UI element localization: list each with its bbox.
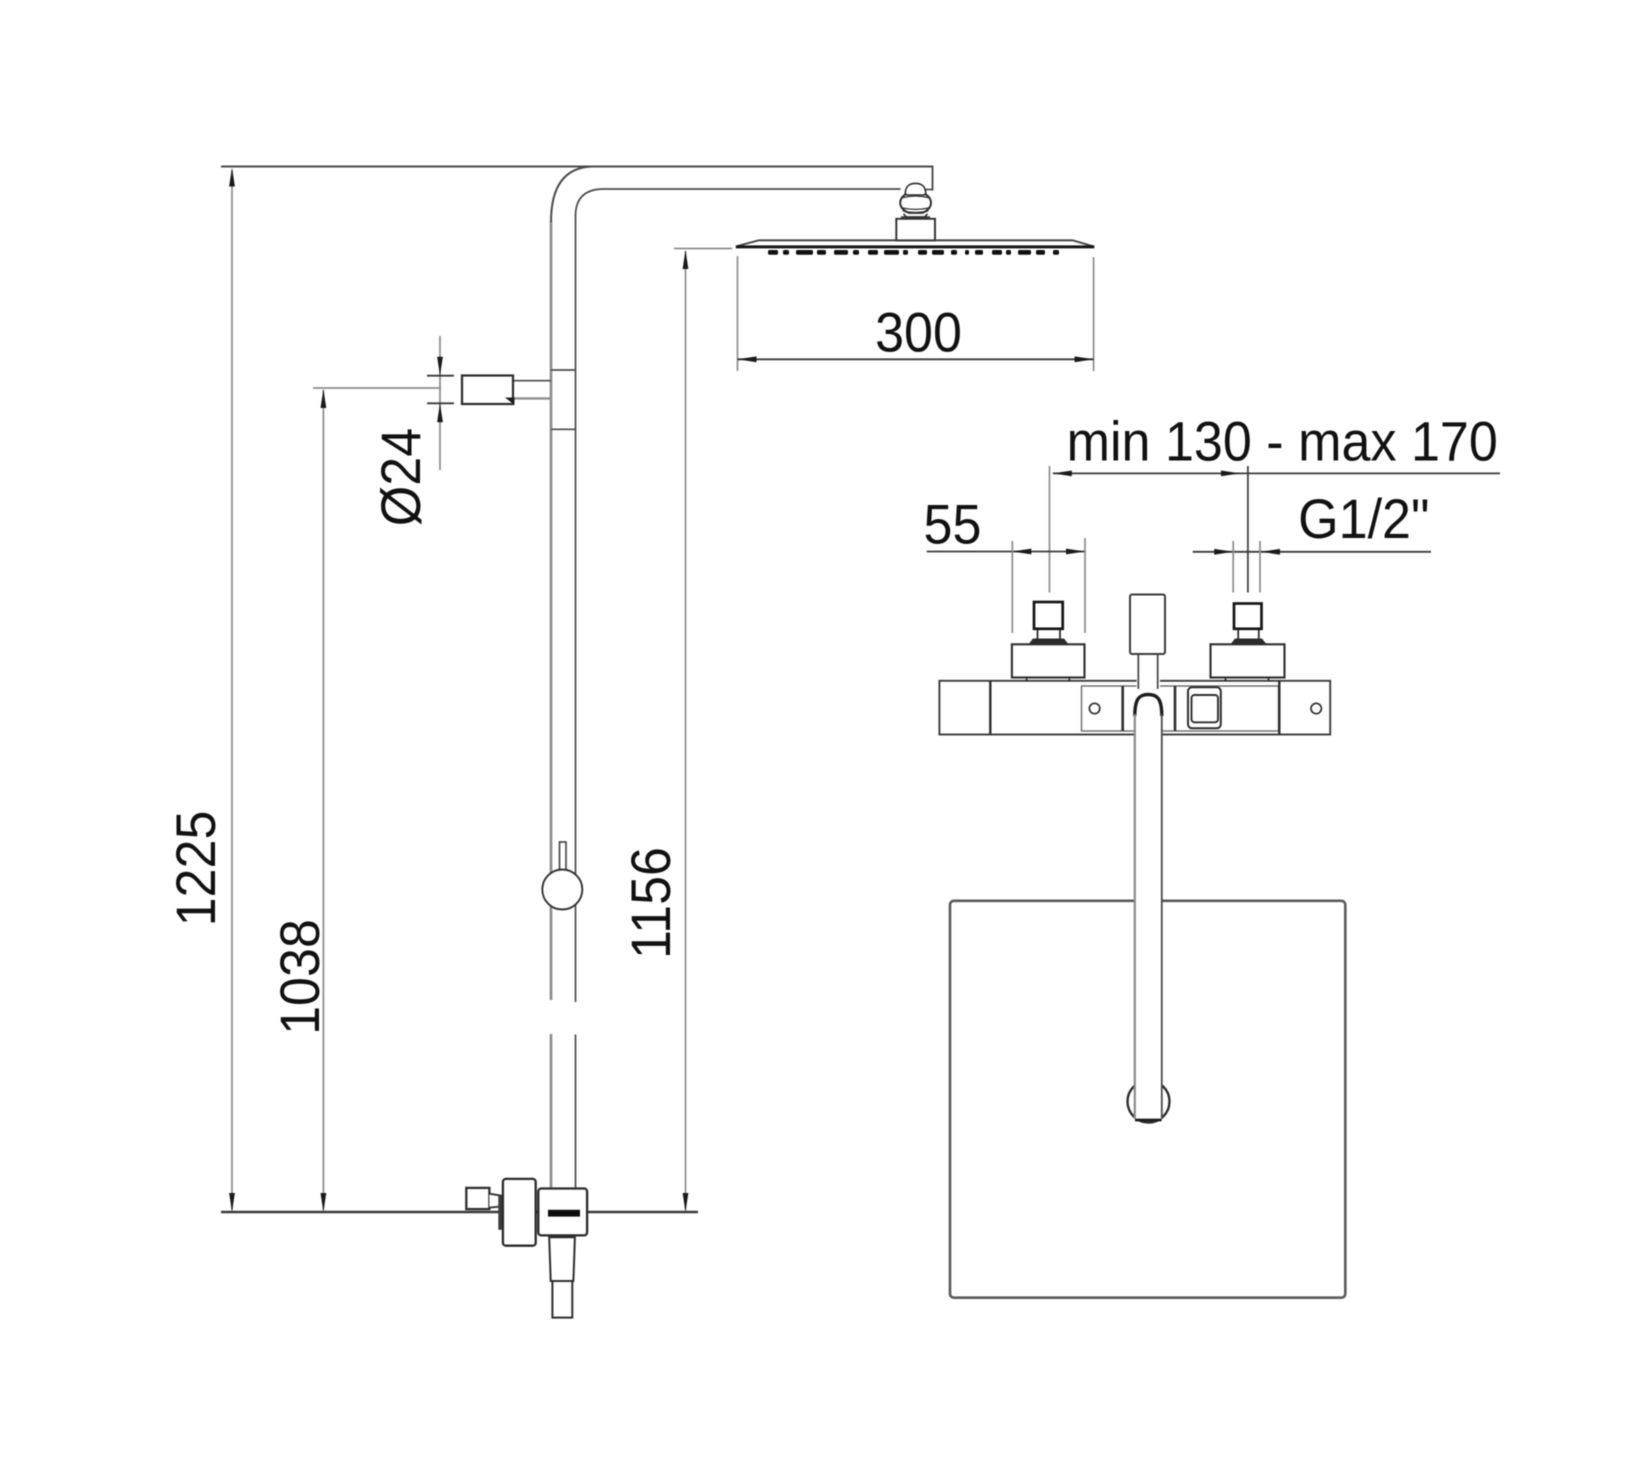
hose body (white) [1135,695,1162,1121]
shower arm elbow outer arc [551,167,592,223]
dim 300 right extension [1093,257,1095,371]
dim Ø24 top tick [427,375,454,377]
shower arm end edge [932,166,934,191]
diverter button outer [1188,687,1221,728]
G1/2 witness left [1232,541,1234,593]
screw left [1089,703,1099,713]
upper diverter knob stem top [513,380,551,382]
hand shower stub [552,1281,572,1318]
55 witness left [1011,541,1013,633]
upper diverter knob stem bottom [513,397,551,399]
hose outlet ring [1128,1081,1170,1123]
holder tab [560,842,567,869]
dim Ø24 lower arrow (up) [437,403,443,422]
dim 300 left arrow [738,356,757,362]
dim 55 left arrow [1012,549,1031,555]
hose bottom cap [1135,1119,1162,1122]
inset panel [1082,686,1279,731]
indicator dash [548,1210,580,1217]
upper slider block top line [551,369,576,371]
shower arm elbow inner arc [576,189,603,216]
dim 1225 bottom arrow [229,1193,235,1212]
min/max left witness [1049,466,1051,593]
shower arm lower edge [602,188,901,190]
panel divider B [1174,686,1177,731]
left handle feet [1026,678,1028,682]
dim G1/2 line [1193,551,1431,553]
dim 1225 vertical line [231,170,233,1210]
dim Ø24 centerline [439,336,441,470]
dim min/max line [1053,472,1500,474]
valve body bar [939,681,1330,735]
bottom diverter body [503,1179,536,1246]
svg-text:300: 300 [875,302,962,364]
dim 1038 bottom arrow [321,1193,327,1212]
right handle collar [1231,639,1267,645]
dim 1038 top tick line [313,387,441,389]
ball joint sphere [900,192,931,214]
svg-text:Ø24: Ø24 [370,428,432,526]
upper diverter knob [462,376,513,405]
upper slider block bottom line [551,428,576,430]
dim 1038 top arrow [321,389,327,408]
bar division left [989,681,991,735]
dim 300 right arrow [1075,356,1094,362]
shower head plate left taper [736,240,759,246]
dim 1156 top arrow [683,250,689,269]
holder ring [542,870,582,910]
svg-text:1156: 1156 [620,847,682,959]
svg-text:55: 55 [924,494,982,556]
dim 1156 vertical line [685,251,687,1210]
svg-text:1038: 1038 [269,919,331,1035]
dim 55 line [927,551,1086,553]
ball joint lower ring lines [901,208,930,210]
dim min/max right arrow [1221,471,1240,477]
ball joint shoulder [901,216,930,218]
shower head nozzles [768,250,1059,255]
handshower holder block [1130,595,1165,655]
G1/2 witness right [1259,541,1261,593]
shower head plate top edge [759,239,1073,241]
gasket bar [498,1195,504,1230]
dim 300 left extension [737,256,739,371]
outlet taper [549,1237,575,1281]
dim 1156 bottom arrow [683,1193,689,1212]
left knob neck [1037,629,1039,639]
G1/2 right arrow (pointing left) [1261,549,1280,555]
diverter button inner [1192,695,1219,722]
ball joint dome cap [905,183,926,195]
baseline bottom reference line [221,1211,698,1213]
svg-text:1225: 1225 [165,811,227,927]
panel divider A [1121,686,1124,731]
dim Ø24 upper arrow (down) [437,357,443,376]
wall plate square [950,901,1345,1298]
screw right [1311,703,1321,713]
ball joint neck [904,214,928,217]
left knob [1034,602,1063,629]
dim 1156 top tick line [674,248,732,250]
top reference line / shower arm top edge [221,166,933,168]
riser pipe right edge [575,215,577,1002]
dim 1038 vertical line [322,390,324,1210]
bottom slider block [538,1189,587,1236]
right handle feet [1225,678,1227,682]
ball joint mount block [896,219,935,241]
right knob [1234,604,1262,629]
shower head plate bottom edge [736,245,1095,248]
svg-text:G1/2": G1/2" [1298,488,1429,550]
hose bend [1135,695,1162,717]
hose right edge [1161,714,1163,1119]
right knob neck [1237,629,1239,639]
svg-text:min 130 - max 170: min 130 - max 170 [1067,411,1498,473]
right handle body [1211,644,1285,677]
G1/2 left arrow (pointing right) [1214,549,1233,555]
dim min/max left arrow [1053,471,1072,477]
ball joint upper ring line [902,196,929,198]
hose left edge [1134,714,1136,1119]
dim 1225 top arrow [229,168,235,187]
dim Ø24 bottom tick [427,402,454,404]
dim 55 right arrow [1066,549,1085,555]
riser pipe left edge [550,221,553,1000]
upper diverter wedge mark [505,398,515,406]
55 witness right [1084,538,1086,633]
bar thick divider right [1278,681,1280,735]
min/max+G1/2 center witness [1247,466,1249,593]
shower head plate right taper [1073,240,1095,246]
handshower handle edges [1137,654,1139,689]
left handle collar [1029,639,1069,645]
left handle body [1012,644,1085,677]
bottom wall union square [466,1188,489,1209]
dim 300 line [738,358,1094,360]
bottom taper connector [489,1194,501,1208]
